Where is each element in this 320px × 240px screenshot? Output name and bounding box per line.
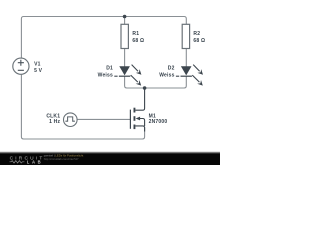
svg-text:D2: D2 — [168, 65, 175, 71]
wire D1 cathode to junction — [125, 76, 145, 88]
CLK1 labels — [46, 113, 60, 125]
svg-text:D1: D1 — [106, 65, 113, 71]
svg-text:R1: R1 — [132, 31, 139, 37]
transistor M1 (NMOS) — [130, 88, 144, 132]
svg-text:1 Hz: 1 Hz — [49, 119, 60, 125]
CircuitLab logo zigzag resistor — [10, 161, 25, 163]
node junction dot at drain — [143, 86, 147, 90]
svg-text:V1: V1 — [34, 62, 41, 68]
D1 labels — [98, 65, 113, 78]
clock source CLK1 — [64, 113, 78, 127]
R1 labels — [132, 31, 144, 44]
wire R1 top stub — [124, 17, 126, 25]
svg-text:5 V: 5 V — [34, 68, 43, 74]
svg-text:R2: R2 — [193, 31, 200, 37]
D2 labels — [159, 65, 174, 78]
wire R2 to D2 — [185, 49, 187, 67]
svg-text:Weiss: Weiss — [159, 72, 174, 78]
LED D2 — [181, 65, 204, 86]
LED D1 — [119, 65, 141, 86]
wire CLK1 output to gate — [78, 118, 131, 120]
D2 label leader dash — [176, 75, 179, 77]
M1 labels — [149, 113, 168, 125]
wire top rail with V1 top lead and R2 drop — [21, 17, 186, 59]
V1 labels — [34, 62, 43, 75]
svg-text:LAB: LAB — [27, 160, 43, 165]
D1 label leader dash — [114, 75, 117, 77]
R2 labels — [193, 31, 205, 44]
wire D2 cathode to junction — [145, 76, 187, 88]
wire V1 bottom lead + bottom rail + source riser — [21, 75, 144, 139]
svg-text:2N7000: 2N7000 — [149, 119, 168, 125]
footer bar — [0, 152, 220, 165]
svg-text:http://circuitlab.com/c4e7t47: http://circuitlab.com/c4e7t47 — [44, 157, 79, 161]
voltage source V1 — [13, 58, 29, 74]
svg-text:68 Ω: 68 Ω — [132, 38, 144, 44]
node junction dot at R1 top — [123, 15, 127, 19]
resistor R2 — [182, 24, 189, 48]
svg-text:68 Ω: 68 Ω — [193, 38, 205, 44]
wire R1 to D1 — [124, 49, 126, 67]
resistor R1 — [121, 24, 128, 48]
svg-text:Weiss: Weiss — [98, 72, 113, 78]
